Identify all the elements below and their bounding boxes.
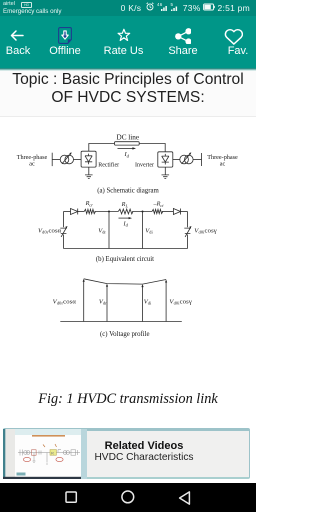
DC line (line resistance box)	[115, 142, 140, 145]
svg-text:(a) Schematic diagram: (a) Schematic diagram	[97, 188, 159, 195]
transformer T2 (inverter side)	[180, 155, 189, 164]
branch Vdi vertical	[142, 212, 144, 249]
ground (rectifier)	[85, 167, 93, 178]
svg-text:Vd0icosγ: Vd0icosγ	[169, 298, 192, 305]
converter U2 inverter box	[158, 152, 173, 167]
current arrow Id on DC line	[118, 147, 134, 149]
resistor -Rci	[152, 209, 163, 213]
alarm clock icon	[146, 2, 154, 13]
wire: rectifier top to DC line	[89, 144, 115, 152]
battery icon	[203, 3, 215, 13]
svg-text:Vdr: Vdr	[98, 227, 106, 234]
arrow Vdi	[142, 287, 144, 322]
node: (c) baseline	[60, 321, 182, 323]
svg-text:Rcr: Rcr	[85, 200, 94, 207]
thyristor valve symbol in inverter	[162, 154, 169, 165]
svg-text:Rectifier: Rectifier	[98, 162, 119, 169]
transformer T1 (rectifier side)	[60, 155, 69, 164]
svg-text:Inverter: Inverter	[135, 163, 154, 169]
toolbar	[0, 16, 256, 68]
signal bars 4G	[157, 2, 168, 14]
left branch wire	[63, 212, 65, 249]
right branch wire	[187, 212, 189, 249]
svg-text:ac: ac	[220, 161, 226, 168]
svg-text:Vdr: Vdr	[99, 298, 107, 305]
wire: to (b) top right corner	[181, 211, 188, 213]
branch Vdr vertical	[108, 212, 110, 249]
wire: transformer to right bus	[193, 159, 201, 161]
svg-text:ac: ac	[29, 160, 35, 167]
wire to node Vdr	[94, 211, 118, 213]
diode D1	[71, 209, 78, 215]
resistor RL	[118, 209, 133, 214]
voltage profile line	[84, 279, 166, 284]
diode D2	[173, 209, 180, 215]
figure caption	[0, 391, 256, 408]
wire to node Vdi	[132, 211, 152, 213]
resistor Rcr	[84, 209, 95, 213]
status bar	[0, 0, 256, 16]
junction node Vdr top	[108, 211, 110, 213]
svg-text:Vdi: Vdi	[145, 227, 153, 234]
ground (inverter)	[162, 167, 170, 178]
converter U1 rectifier box	[81, 151, 96, 167]
svg-text:Vd0icosγ: Vd0icosγ	[194, 227, 217, 234]
wire	[162, 211, 174, 213]
wire: transformer to rectifier	[74, 159, 82, 161]
svg-text:Vd0rcosα: Vd0rcosα	[38, 227, 62, 234]
fav heart icon	[224, 28, 244, 46]
source Vd0r cos(alpha) plates	[60, 228, 67, 233]
node: left ac bus bar	[51, 153, 53, 166]
video thumbnail	[3, 429, 87, 479]
rate us star icon	[117, 28, 131, 43]
svg-text:DC line: DC line	[117, 134, 140, 142]
arrow Vdr	[106, 286, 108, 322]
svg-text:(b) Equivalent circuit: (b) Equivalent circuit	[96, 256, 154, 263]
svg-text:(c) Voltage profile: (c) Voltage profile	[100, 331, 150, 338]
nav bar	[0, 483, 256, 512]
arrow Vd0r cos(alpha)	[83, 282, 85, 322]
related videos card	[3, 428, 250, 479]
wire: inverter to transformer T2	[173, 159, 180, 161]
svg-text:Id: Id	[124, 151, 130, 158]
svg-text:–Rci: –Rci	[152, 201, 164, 208]
arrow Vd0i cos(gamma)	[165, 282, 167, 321]
svg-text:5: 5	[171, 2, 174, 7]
svg-text:46: 46	[157, 2, 163, 7]
wire	[78, 211, 85, 213]
svg-text:Id: Id	[123, 220, 129, 227]
junction node Vdi top	[142, 211, 144, 213]
node: right ac bus bar	[201, 153, 203, 166]
thyristor valve symbol in rectifier	[85, 154, 92, 165]
signal bars 2	[170, 2, 180, 14]
offline download icon	[58, 27, 72, 44]
svg-text:Vdi: Vdi	[144, 298, 152, 305]
circuit figure svg	[0, 116, 256, 386]
wire: (b) top left corner to diode D1	[64, 211, 71, 213]
svg-text:RL: RL	[121, 201, 129, 208]
source Vd0i cos(gamma) plates	[184, 228, 191, 233]
wire: (b) bottom return	[64, 248, 188, 250]
svg-text:Vd0rcosα: Vd0rcosα	[53, 298, 77, 305]
wire: DC line to inverter top	[139, 144, 165, 152]
current arrow Id in (b)	[119, 217, 131, 219]
wire: bus to transformer	[52, 159, 60, 161]
back arrow icon	[10, 30, 24, 41]
share icon	[175, 28, 192, 45]
title	[0, 71, 256, 117]
